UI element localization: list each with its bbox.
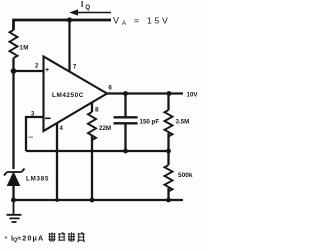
junction dot rail pin7 (67, 17, 72, 22)
label minus input (45, 118, 51, 120)
wire 3.5M to feedback node (167, 133, 169, 151)
svg-text:10V: 10V (187, 92, 199, 99)
capacitor C1 150pF plates (114, 117, 138, 123)
wire 22M to ground rail (91, 136, 93, 200)
junction dot pin4 ground (55, 198, 59, 202)
svg-text:22M: 22M (99, 125, 111, 132)
junction dot cap bottom (123, 149, 128, 154)
wire left rail pin2 node down to zener (12, 71, 14, 169)
svg-text:VA = 15V: VA = 15V (113, 16, 171, 28)
wire bottom ground rail (14, 199, 184, 201)
wire pin8 to Rset (91, 102, 93, 112)
svg-text:I: I (81, 0, 83, 9)
op-amp U1 triangle (44, 57, 108, 132)
resistor R4 500k body (165, 165, 173, 191)
caption CJK text blocks (49, 232, 85, 242)
svg-text:150 pF: 150 pF (140, 119, 160, 126)
resistor R3 3.5M body (165, 110, 173, 136)
resistor R1 1M body (10, 30, 18, 58)
resistor R2 22M body (88, 112, 96, 140)
wire 500k to ground rail (167, 188, 169, 200)
junction dot feedback 3.5M 500k (166, 149, 171, 154)
svg-text:1M: 1M (20, 46, 29, 52)
junction dot 500k ground (166, 198, 171, 203)
ground symbol (7, 200, 22, 222)
svg-text:Q: Q (85, 4, 90, 11)
junction dot left rail ground (11, 198, 16, 203)
wire pin3 from feedback (26, 117, 44, 151)
caption footnote (5, 234, 45, 244)
wire 3.5M top lead (167, 94, 169, 111)
wire pin4 to ground rail (56, 123, 58, 200)
stray mark near pin3 (29, 137, 34, 138)
svg-text:LM4250C: LM4250C (52, 92, 84, 99)
svg-text:3.5M: 3.5M (176, 119, 190, 126)
junction dot 3.5M top (167, 91, 172, 96)
wire feedback node to 500k (167, 151, 169, 165)
arrowhead IQ (69, 9, 78, 15)
wire zener to bottom rail (12, 185, 14, 200)
wire top supply rail (14, 20, 112, 30)
svg-text:+: + (45, 67, 49, 74)
wire cap bottom lead (124, 124, 126, 151)
wire cap top lead (124, 94, 126, 118)
svg-text:500k: 500k (178, 172, 193, 179)
zener diode LM385 symbol (4, 169, 25, 176)
wire pin7 drop from rail (68, 20, 70, 72)
wire pin2 to opamp (14, 70, 44, 72)
wire feedback net (26, 150, 169, 152)
arrow IQ current (76, 12, 111, 14)
svg-text:8: 8 (95, 107, 99, 114)
junction dot pin2 node (11, 68, 17, 74)
wire left rail R1 to pin2 node (12, 58, 14, 71)
junction dot 22M ground (90, 198, 95, 203)
svg-text:*: * (5, 234, 8, 243)
junction dot cap top (123, 91, 128, 96)
svg-text:LM385: LM385 (26, 176, 49, 183)
wire output pin6 (107, 92, 183, 94)
